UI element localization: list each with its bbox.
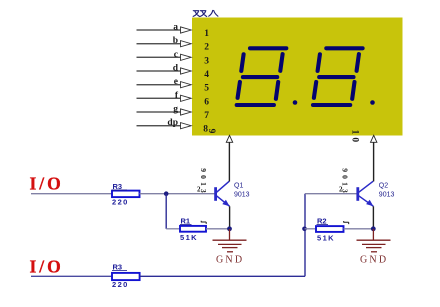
pin g (7) xyxy=(137,105,210,122)
wire R2 to emitter node xyxy=(344,228,374,230)
wire Q1 emitter down xyxy=(229,206,231,229)
wire I/O to R3 xyxy=(31,193,112,195)
junction node A xyxy=(164,191,169,196)
svg-text:5: 5 xyxy=(204,84,209,94)
svg-text:2: 2 xyxy=(204,43,209,53)
display DS1 body xyxy=(192,18,403,136)
decimal point dp2 xyxy=(370,100,375,105)
svg-text:e: e xyxy=(174,77,178,87)
pin c (3) xyxy=(137,50,210,67)
pin e (5) xyxy=(137,77,210,94)
7-segment digit 1 xyxy=(237,48,287,105)
display pin 9 (bottom left) xyxy=(206,129,233,143)
wire to R1 xyxy=(166,228,180,230)
wire Q2 emitter down xyxy=(372,206,374,229)
wire R1 to emitter node xyxy=(206,228,230,230)
svg-text:51K: 51K xyxy=(317,234,335,243)
svg-text:9013: 9013 xyxy=(234,191,250,198)
svg-text:Q1: Q1 xyxy=(234,182,243,189)
pin d (4) xyxy=(137,64,210,81)
junction node Q1 emitter xyxy=(227,226,232,231)
pin number 1 (Q2 emitter, rotated) xyxy=(343,221,348,224)
svg-text:220: 220 xyxy=(112,198,129,207)
svg-text:I/O: I/O xyxy=(30,174,64,194)
7-segment digit 2 xyxy=(313,48,363,105)
label 双八 xyxy=(193,11,218,17)
svg-text:9: 9 xyxy=(206,129,216,134)
ground GND1 xyxy=(213,229,247,252)
svg-text:220: 220 xyxy=(112,280,129,289)
transistor Q1 xyxy=(216,181,250,206)
svg-text:51K: 51K xyxy=(180,233,198,242)
svg-text:b: b xyxy=(173,36,178,46)
resistor R3 (bottom) xyxy=(112,263,140,289)
junction node Q2 emitter xyxy=(371,226,376,231)
ground GND2 xyxy=(357,229,391,252)
pin dp (8) xyxy=(137,118,209,135)
wire R3 to Q1 base xyxy=(140,193,216,195)
wire junction to R2 xyxy=(305,228,317,230)
svg-text:6: 6 xyxy=(204,97,209,107)
pin number 1 (Q1 emitter, rotated) xyxy=(201,221,206,224)
wire junction down to R1 xyxy=(165,194,167,229)
svg-text:a: a xyxy=(173,23,178,33)
resistor R1 xyxy=(180,217,206,242)
svg-text:9013: 9013 xyxy=(340,168,349,196)
svg-text:4: 4 xyxy=(204,70,209,80)
decimal point dp1 xyxy=(293,100,298,105)
wire Q2 collector to display pin 10 xyxy=(373,142,375,181)
wire to Q2 base xyxy=(305,193,357,195)
resistor R2 xyxy=(316,217,344,243)
svg-text:7: 7 xyxy=(204,111,209,121)
svg-text:g: g xyxy=(173,105,178,115)
pin a (1) xyxy=(137,23,210,40)
svg-text:9013: 9013 xyxy=(379,191,395,198)
svg-text:d: d xyxy=(173,64,179,74)
transistor Q2 xyxy=(358,181,395,206)
display pin 10 (bottom right) xyxy=(350,130,377,146)
resistor R3 (top) xyxy=(112,182,140,207)
pin f (6) xyxy=(137,91,210,108)
wire R3(2) right xyxy=(140,275,306,277)
svg-text:1: 1 xyxy=(204,29,209,39)
svg-text:3: 3 xyxy=(204,56,209,66)
wire Q1 collector to display pin 9 xyxy=(228,142,230,181)
svg-text:Q2: Q2 xyxy=(379,182,388,189)
svg-text:dp: dp xyxy=(167,118,178,128)
svg-text:c: c xyxy=(174,50,178,60)
svg-text:10: 10 xyxy=(350,130,360,146)
pin b (2) xyxy=(137,36,210,53)
junction node B xyxy=(302,227,307,232)
svg-text:GND: GND xyxy=(216,255,244,266)
svg-text:GND: GND xyxy=(360,255,388,266)
wire I/O2 to R3 xyxy=(31,275,112,277)
svg-text:9013: 9013 xyxy=(199,168,208,196)
svg-text:I/O: I/O xyxy=(30,257,64,277)
wire up to Q2 base row xyxy=(304,194,306,277)
svg-text:f: f xyxy=(175,91,179,101)
